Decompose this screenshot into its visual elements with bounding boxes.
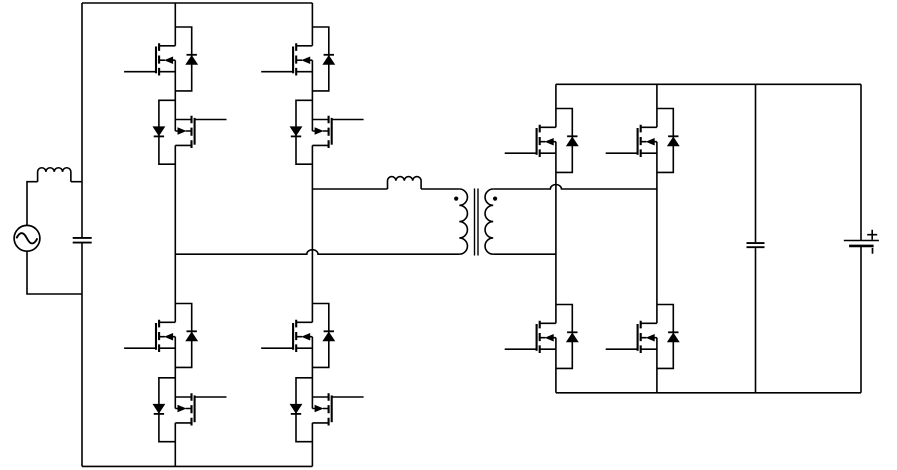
diode D7 (antiparallel) xyxy=(312,304,334,368)
diode D11 (antiparallel) xyxy=(657,109,679,173)
wire (right leg 2 bus) xyxy=(656,84,658,393)
wire (inductor to input bus) xyxy=(71,181,82,183)
wire (input bus lower, to bottom rail) xyxy=(81,243,83,466)
diode D4 (antiparallel) xyxy=(153,378,175,442)
wire (battery bottom lead) xyxy=(860,246,862,393)
wire (battery top lead) xyxy=(860,84,862,240)
wire (left bridge bottom rail) xyxy=(82,465,312,467)
wire (right bridge bottom rail) xyxy=(556,392,861,394)
battery B1 plus label xyxy=(867,230,877,240)
wire (input bus upper, to top rail) xyxy=(81,3,83,237)
wire (leg B midpoint to series inductor) xyxy=(312,188,387,190)
diode D8 (antiparallel) xyxy=(291,378,313,442)
transistor Q8 (MOSFET) xyxy=(312,393,363,425)
battery B1 minus label xyxy=(872,248,874,254)
diode D12 (antiparallel) xyxy=(657,305,679,369)
diode D3 (antiparallel) xyxy=(175,304,197,368)
wire (series inductor to transformer primary top) xyxy=(421,188,459,190)
diode D1 (antiparallel) xyxy=(175,27,197,91)
diode D2 (antiparallel) xyxy=(153,100,175,164)
transistor Q11 (MOSFET) xyxy=(606,125,657,157)
diode D9 (antiparallel) xyxy=(556,109,578,173)
wire (leg A midpoint to transformer primary bottom, hops leg B) xyxy=(175,250,459,255)
wire (right leg 1 bus) xyxy=(555,84,557,393)
transformer T1 secondary polarity dot xyxy=(493,197,497,201)
diode D10 (antiparallel) xyxy=(556,305,578,369)
wire (source bottom return) xyxy=(27,251,82,294)
diode D5 (antiparallel) xyxy=(312,27,334,91)
transistor Q6 (MOSFET) xyxy=(312,116,363,148)
wire (right bridge top rail) xyxy=(556,83,861,85)
transistor Q7 (MOSFET) xyxy=(261,320,312,352)
transistor Q4 (MOSFET) xyxy=(175,393,226,425)
wire (left bridge top rail) xyxy=(82,2,312,4)
filter inductor Lf xyxy=(38,168,71,182)
transistor Q9 (MOSFET) xyxy=(505,125,556,157)
transformer T1 primary polarity dot xyxy=(454,197,458,201)
filter capacitor Cf xyxy=(73,238,92,243)
wire (output cap top lead) xyxy=(755,84,757,242)
AC source V1 (grid) xyxy=(14,225,40,251)
transistor Q3 (MOSFET) xyxy=(124,320,175,352)
transistor Q1 (MOSFET) xyxy=(124,43,175,75)
wire (secondary top to right leg 2 midpoint, hops right leg 1) xyxy=(493,184,657,189)
diode D6 (antiparallel) xyxy=(291,100,313,164)
wire (source top to filter inductor) xyxy=(27,182,38,226)
transistor Q2 (MOSFET) xyxy=(175,116,226,148)
wire (secondary bottom to right leg 1 midpoint) xyxy=(493,253,556,255)
wire (leg B bus, phase b) xyxy=(311,3,313,466)
wire (leg A bus, phase a) xyxy=(174,3,176,466)
transformer T1 primary winding xyxy=(459,189,467,254)
transistor Q10 (MOSFET) xyxy=(505,321,556,353)
transformer T1 secondary winding xyxy=(485,189,493,254)
battery B1 (DC source) xyxy=(844,241,879,246)
transistor Q12 (MOSFET) xyxy=(606,321,657,353)
wire (output cap bottom lead) xyxy=(755,248,757,393)
transistor Q5 (MOSFET) xyxy=(261,43,312,75)
capacitor Co (output filter) xyxy=(747,243,765,247)
transformer T1 core xyxy=(475,189,479,256)
series inductor Ls xyxy=(388,177,422,189)
